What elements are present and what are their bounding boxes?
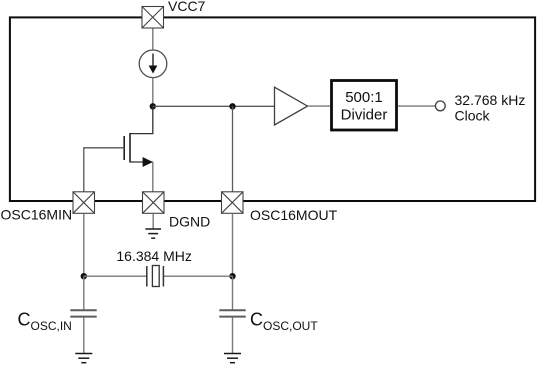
transistor Q1 source arrowhead [143, 157, 153, 167]
crystal Y1 plates [147, 266, 164, 287]
chip boundary rectangle [10, 17, 535, 201]
ground below C_OSC,IN [75, 354, 92, 363]
svg-text:Divider: Divider [341, 107, 388, 124]
buffer U1 [275, 87, 308, 125]
wire current source to node A [152, 78, 154, 107]
wire OSC16MOUT pin to node D [232, 213, 234, 276]
wire buffer to divider [308, 105, 331, 107]
svg-text:DGND: DGND [169, 214, 210, 230]
pin OSC16MIN [73, 192, 95, 214]
pin VCC7 [142, 7, 164, 29]
svg-text:COSC,OUT: COSC,OUT [250, 310, 318, 334]
wire OSC16MIN pin to node C [83, 213, 85, 276]
node C junction dot [81, 273, 87, 279]
output terminal circle [435, 101, 445, 111]
wire node A to buffer input [153, 105, 275, 107]
wire divider to output terminal [398, 105, 435, 107]
transistor Q1 drain wire [130, 106, 153, 133]
svg-text:OSC16MOUT: OSC16MOUT [250, 207, 338, 223]
ground DGND [145, 229, 161, 238]
svg-text:Clock: Clock [455, 108, 491, 124]
transistor Q1 gate wire [84, 148, 124, 192]
svg-text:500:1: 500:1 [345, 89, 383, 106]
svg-text:COSC,IN: COSC,IN [18, 310, 72, 334]
svg-text:VCC7: VCC7 [168, 0, 206, 14]
divider block 500:1 [332, 81, 397, 131]
svg-text:OSC16MIN: OSC16MIN [1, 207, 73, 223]
transistor Q1 gate bar [123, 136, 125, 160]
ground below C_OSC,OUT [224, 354, 241, 363]
crystal Y1 body [152, 266, 159, 287]
node B junction dot [229, 103, 235, 109]
node A junction dot [150, 103, 156, 109]
pin OSC16MOUT [222, 192, 244, 214]
transistor Q1 channel bar [129, 133, 131, 163]
pin DGND [143, 192, 165, 214]
wire capacitor C_OSC,OUT to ground [232, 318, 234, 354]
transistor Q1 source wire with arrow [130, 161, 153, 163]
wire node B down to OSC16MOUT pin [232, 106, 234, 192]
wire DGND pin to ground [152, 213, 154, 228]
wire source to DGND pin [152, 162, 154, 192]
svg-text:16.384 MHz: 16.384 MHz [116, 248, 191, 264]
svg-text:32.768 kHz: 32.768 kHz [455, 92, 526, 108]
wire capacitor C_OSC,IN to ground [83, 318, 85, 354]
wire crystal to node D [163, 275, 232, 277]
wire VCC7 pin to current source [152, 28, 154, 50]
capacitor C_OSC,IN plates [70, 310, 96, 316]
node D junction dot [229, 273, 235, 279]
wire node C to capacitor C_OSC,IN [83, 276, 85, 309]
wire node D to capacitor C_OSC,OUT [232, 276, 234, 309]
wire node C to crystal [84, 275, 147, 277]
current source I1 [139, 50, 167, 78]
capacitor C_OSC,OUT plates [219, 310, 245, 316]
